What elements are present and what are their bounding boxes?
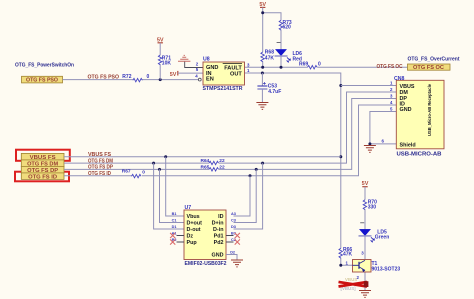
svg-text:22: 22 — [219, 165, 225, 171]
wire OUT to vbus corner — [245, 73, 353, 265]
svg-text:9013-SOT23: 9013-SOT23 — [372, 267, 401, 273]
red cross-out X — [339, 281, 369, 287]
no-erc cross Pup — [170, 239, 175, 244]
svg-text:Red: Red — [293, 56, 302, 62]
svg-text:Shield: Shield — [400, 142, 416, 148]
svg-text:CN8: CN8 — [394, 76, 404, 82]
svg-text:OTG FS ID: OTG FS ID — [88, 171, 111, 177]
port OTG FS PSO — [22, 76, 63, 83]
resistor R71 10K — [158, 55, 161, 65]
wire OTG FS DM — [64, 92, 396, 163]
wire port to EN pin — [63, 79, 199, 81]
resistor R72 — [133, 78, 143, 81]
red highlight box 2 — [15, 172, 69, 182]
svg-text:OTG_FS_OverCurrent: OTG_FS_OverCurrent — [408, 57, 460, 63]
wire pin5 GND to shield ground — [370, 112, 396, 144]
svg-text:STMPS2141STR: STMPS2141STR — [203, 86, 243, 92]
resistor R73 620 — [279, 20, 282, 30]
svg-text:OTG FS PSO: OTG FS PSO — [26, 78, 58, 84]
junction DM tap to U7 — [152, 162, 155, 165]
port OTG FS DP — [21, 166, 64, 173]
red highlight box 1 — [16, 150, 70, 161]
wire VBUS down to U7 — [166, 157, 184, 216]
svg-text:OUT: OUT — [230, 71, 242, 77]
svg-text:D2: D2 — [230, 250, 235, 254]
svg-text:OTG_FS_PowerSwitchOn: OTG_FS_PowerSwitchOn — [15, 63, 74, 69]
diode LD5 green — [359, 229, 375, 242]
no-erc cross Pd1 — [235, 233, 240, 238]
svg-text:D3: D3 — [231, 225, 236, 229]
svg-text:EN: EN — [206, 77, 214, 83]
no-erc cross Dz — [170, 233, 175, 238]
no-erc cross Pd2 — [235, 239, 240, 244]
svg-text:A3: A3 — [231, 212, 236, 216]
wire DP down to U7 — [160, 169, 185, 222]
junction LD6 on FAULT — [280, 66, 283, 69]
svg-text:D-out: D-out — [187, 227, 201, 233]
wire OTG FS ID — [64, 105, 396, 176]
svg-text:R64: R64 — [201, 158, 210, 164]
svg-text:OTG FS DP: OTG FS DP — [88, 165, 113, 171]
wire 5V down and branch — [263, 7, 281, 67]
svg-text:VBUS: VBUS — [345, 277, 357, 282]
svg-text:0: 0 — [147, 74, 150, 80]
wire 5V to EN line — [159, 43, 161, 80]
svg-text:ID: ID — [218, 214, 223, 220]
svg-text:R68: R68 — [265, 49, 274, 55]
wire DP right down to U7 — [234, 169, 257, 222]
diode LD6 red — [275, 49, 291, 62]
svg-text:330: 330 — [368, 205, 377, 211]
svg-text:R69: R69 — [299, 62, 308, 68]
svg-text:VBUS FS: VBUS FS — [88, 152, 112, 158]
junction VBUS tap to U7 — [164, 155, 167, 158]
wire VBUS FS — [64, 156, 341, 158]
junction C53 tap — [261, 72, 264, 75]
svg-text:47K: 47K — [343, 252, 353, 258]
svg-text:GND: GND — [212, 253, 224, 259]
svg-text:OTG FS OC: OTG FS OC — [413, 65, 444, 71]
svg-text:4.7uF: 4.7uF — [268, 89, 281, 95]
ground (up) at U8 GND pin — [178, 55, 203, 67]
svg-text:OTG FS OC: OTG FS OC — [377, 64, 403, 70]
5V bar power at IN pin — [170, 71, 203, 78]
junction DM right tap — [261, 162, 264, 165]
junction ID right tap — [249, 174, 252, 177]
svg-text:U8: U8 — [203, 57, 210, 63]
junction base — [339, 264, 342, 267]
U7 GND wire and ground — [226, 255, 237, 260]
ground under T1 emitter — [359, 291, 371, 298]
ground under C53 — [256, 103, 268, 110]
svg-text:U7: U7 — [185, 205, 192, 211]
wire OTG FS DP — [64, 99, 396, 170]
wire DM right down to U7 — [234, 163, 263, 229]
svg-text:C1: C1 — [172, 218, 177, 222]
junction DP tap to U7 — [158, 168, 161, 171]
junction shield/gnd — [368, 142, 371, 145]
junction R68 on FAULT — [261, 66, 264, 69]
wire pin6 shield — [370, 143, 396, 145]
svg-text:R72: R72 — [122, 74, 131, 80]
svg-text:GND: GND — [400, 107, 412, 113]
port OTG FS DM — [21, 160, 64, 167]
svg-text:D1: D1 — [172, 225, 177, 229]
transistor T1 — [353, 260, 372, 273]
port VBUS FS — [21, 153, 64, 160]
port OTG FS ID — [21, 173, 64, 180]
resistor R64 22 — [209, 161, 219, 164]
svg-text:Pd2: Pd2 — [214, 240, 224, 246]
svg-text:Pd1: Pd1 — [214, 234, 224, 240]
junction DP right tap — [255, 168, 258, 171]
wire 5V to R70 to LED to T1 — [364, 187, 366, 291]
power 5V above R70 — [362, 181, 369, 187]
junction R71/EN wire — [159, 78, 162, 81]
USB connector CN8 — [394, 76, 444, 149]
svg-text:5V: 5V — [170, 72, 177, 78]
port OTG FS OC — [408, 64, 451, 71]
svg-text:OTG FS ID: OTG FS ID — [28, 174, 57, 180]
wire ID down to U7 right — [234, 176, 251, 216]
wire FAULT to OC port — [245, 66, 407, 68]
svg-text:USB-MICRO-AB: USB-MICRO-AB — [397, 152, 442, 158]
svg-text:OTG FS PSO: OTG FS PSO — [88, 74, 120, 80]
svg-text:Green: Green — [375, 234, 389, 240]
svg-text:D+in: D+in — [212, 221, 224, 227]
svg-text:D+out: D+out — [187, 221, 203, 227]
capacitor C53 — [257, 73, 281, 102]
resistor R67 0 — [132, 174, 142, 177]
junction OUT vertical at VBUS wire — [339, 155, 342, 158]
wire DM down to U7 — [154, 163, 184, 229]
svg-text:Dz: Dz — [187, 234, 194, 240]
ground under shield — [364, 146, 376, 153]
resistor R66 47K — [339, 248, 342, 258]
power 5V top — [259, 2, 266, 8]
svg-text:EMIF02-USB03F2: EMIF02-USB03F2 — [185, 261, 227, 267]
svg-text:0: 0 — [142, 169, 145, 175]
resistor R69 — [308, 66, 318, 69]
U7 nc stubs — [177, 236, 234, 243]
svg-text:B1: B1 — [172, 212, 177, 216]
power 5V above R71 — [157, 37, 164, 43]
resistor R65 22 — [209, 168, 219, 171]
junction OUT vertical at pin1 stub — [339, 84, 342, 87]
svg-text:R67: R67 — [122, 169, 131, 175]
svg-text:R65: R65 — [201, 165, 210, 171]
power switch U8 STMPS2141STR — [198, 57, 244, 85]
svg-text:47K: 47K — [265, 56, 275, 62]
svg-text:OTG FS DM: OTG FS DM — [88, 158, 113, 164]
resistor R70 330 — [363, 200, 366, 210]
svg-text:Vbus: Vbus — [187, 214, 200, 220]
wire pin1 VBUS stub — [341, 85, 397, 87]
resistor R68 47K — [261, 52, 264, 62]
svg-text:0: 0 — [318, 62, 321, 68]
svg-text:10K: 10K — [162, 60, 172, 66]
svg-text:22: 22 — [219, 158, 225, 164]
svg-text:D-in: D-in — [213, 227, 223, 233]
CN8 pin stubs — [347, 92, 397, 105]
svg-text:Pup: Pup — [187, 240, 198, 246]
svg-text:USB_Micro-AB Receptacle: USB_Micro-AB Receptacle — [427, 84, 432, 136]
junction top branch — [261, 11, 264, 14]
svg-text:C3: C3 — [231, 218, 236, 222]
svg-text:620: 620 — [283, 24, 292, 30]
